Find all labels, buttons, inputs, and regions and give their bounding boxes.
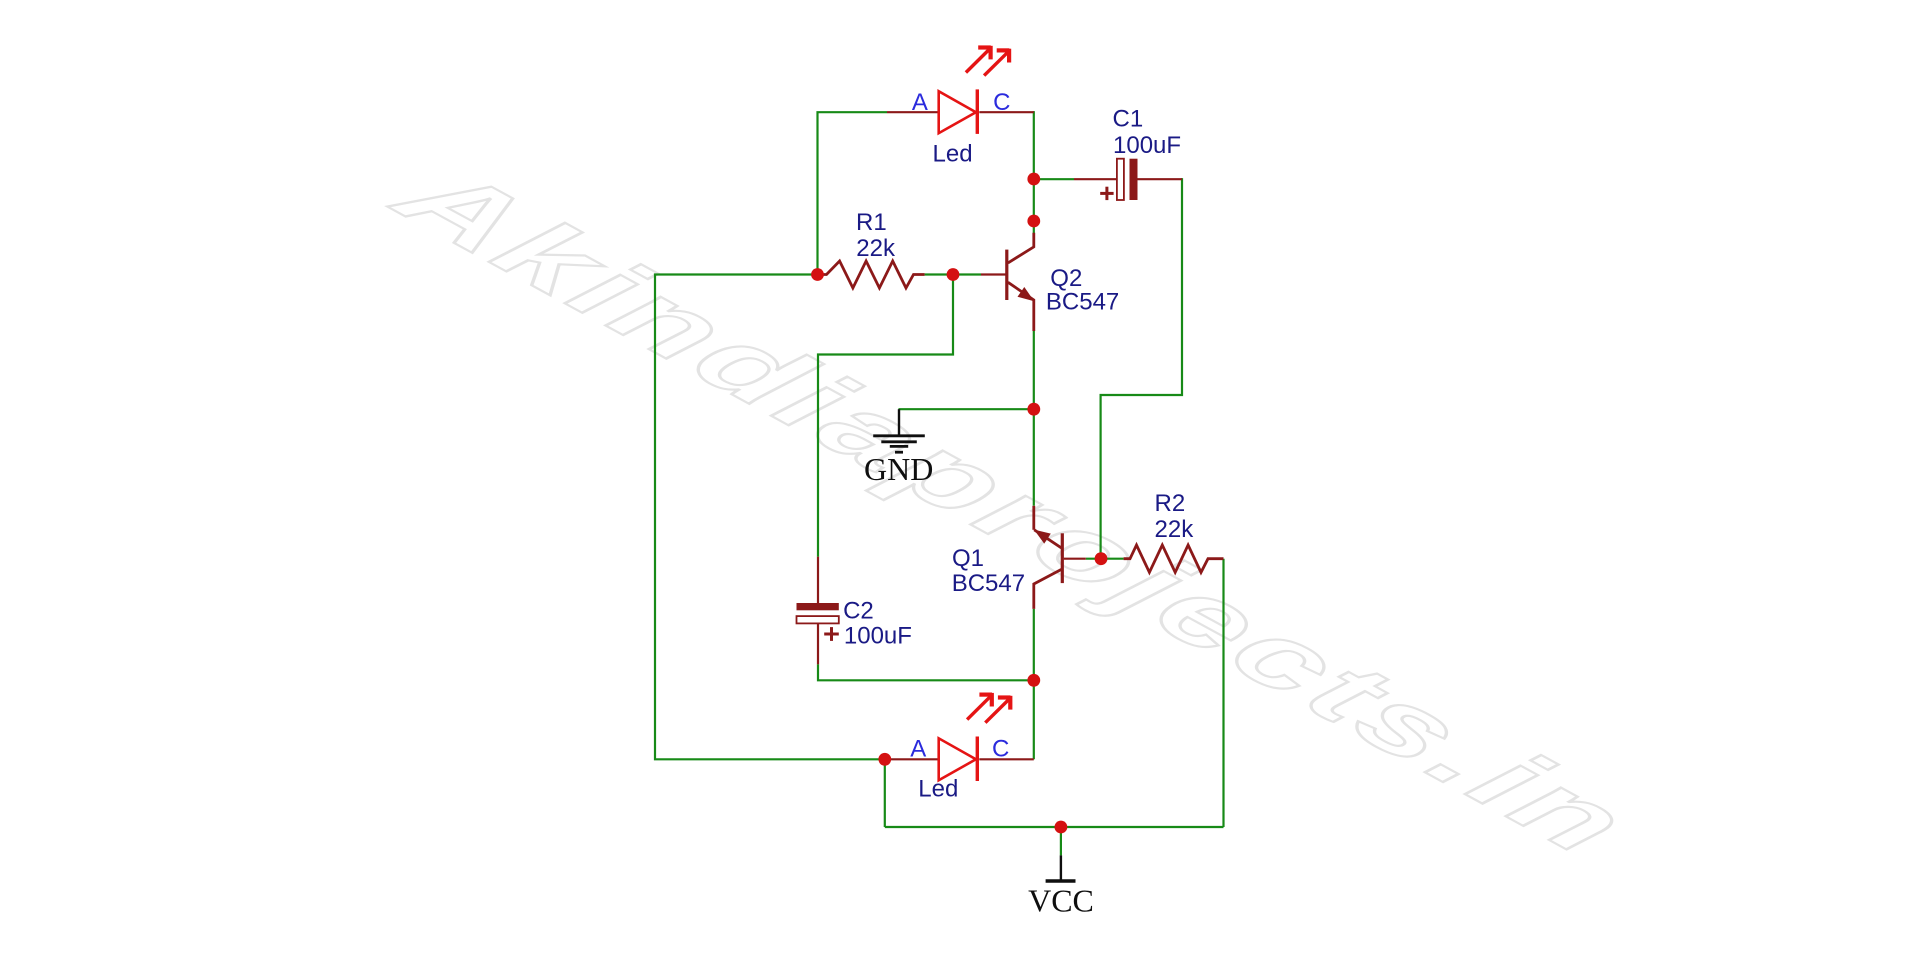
junction node Q1 collector / C2 / LED2 cathode [1027,674,1040,687]
wire R2 right down to VCC rail [1222,559,1224,827]
svg-text:C: C [992,736,1009,763]
svg-text:C1: C1 [1113,106,1144,133]
capacitor C2 top lead [817,557,819,603]
LED2 cathode bar [976,737,979,782]
VCC symbol [1046,855,1076,881]
capacitor C1 plus sign [1100,187,1113,200]
LED2 arrow 1 [967,693,992,720]
LED2 arrow 2 [985,696,1010,723]
junction node Q1 base / R2 / C1 [1095,552,1108,565]
wire GND node down to Q1 emitter pin [1033,409,1035,506]
wire VCC stub [1060,827,1062,855]
junction node R1 right / Q2 base [947,268,960,281]
wire spine dot to Q2 collector pin [1033,221,1035,233]
svg-text:VCC: VCC [1028,883,1094,919]
svg-text:BC547: BC547 [952,570,1025,597]
LED1 (top Led) anode pin [887,111,939,113]
capacitor C2 top plate (solid) [797,603,839,610]
transistor Q1 emitter pin [1032,506,1035,530]
svg-text:100uF: 100uF [1113,132,1181,159]
wire Q1 base to R2 [1086,558,1124,560]
svg-text:A: A [910,736,926,763]
svg-text:Q1: Q1 [952,545,984,572]
capacitor C1 right plate (solid) [1130,159,1138,200]
transistor Q1 base pin [1064,558,1086,560]
wire bottom LED anode node down to rail [884,759,886,827]
wire R1 node down and across to C2 top [818,275,953,557]
LED2 (bottom Led) anode pin [885,758,939,760]
svg-text:C: C [993,89,1010,116]
LED1 cathode bar [976,89,979,133]
svg-text:BC547: BC547 [1046,289,1119,316]
svg-text:Led: Led [918,776,958,803]
junction node LED2 anode [878,753,891,766]
transistor Q1 base bar [1061,533,1064,583]
LED1 arrow 1 [966,46,991,73]
LED1 cathode pin [979,111,1034,113]
transistor Q1 collector [1034,569,1062,609]
transistor Q2 base bar [1005,250,1008,300]
wire bottom LED cathode up to C2 bottom node [1033,680,1035,759]
svg-text:R1: R1 [856,209,887,236]
junction node Q2 collector [1027,215,1040,228]
junction node R1 left [811,268,824,281]
capacitor C2 bottom plate (hollow) [797,616,839,623]
transistor Q2 emitter arrow [1018,287,1035,301]
junction node VCC rail [1055,821,1068,834]
wire GND stub horizontal [899,408,1034,410]
capacitor C1 right lead [1138,178,1183,180]
ground symbol [873,409,925,452]
svg-text:GND: GND [864,451,933,487]
wire net VCC left rail: top LED anode to R1 node down left side to bottom LED anode [818,112,888,274]
wire spine dot to dot [1033,179,1035,221]
LED1 arrow 2 [984,49,1009,76]
svg-text:A: A [912,89,928,116]
svg-text:R2: R2 [1155,490,1186,517]
svg-text:C2: C2 [843,597,874,624]
wire R1 right to Q2 base [925,273,981,275]
junction node GND / emitters [1027,403,1040,416]
wire top LED cathode corner down to C1 node [1033,111,1035,179]
wire bottom VCC rail [885,826,1224,828]
LED2 triangle [939,738,976,780]
capacitor C2 plus sign [824,627,839,641]
transistor Q2 emitter [1008,282,1034,331]
transistor Q1 emitter [1034,530,1061,548]
svg-text:22k: 22k [1155,516,1195,543]
resistor R1 [818,261,925,288]
wire C1 node to C1 left lead [1034,178,1074,180]
capacitor C2 bottom lead [817,623,819,664]
wire Q2 emitter down to GND node [1033,331,1035,409]
wire C2 bottom across to Q1 collector node [818,664,1034,680]
capacitor C1 left lead [1074,178,1117,180]
wire C1 right to Q1 base node [1101,178,1182,559]
resistor R2 [1124,545,1224,572]
svg-text:Led: Led [933,141,973,168]
transistor Q1 emitter arrow [1034,530,1051,544]
transistor Q2 collector [1008,233,1034,263]
capacitor C1 left plate (hollow) [1117,159,1124,200]
LED2 cathode pin [979,758,1034,760]
transistor Q2 base pin [981,273,1006,275]
junction node C1 / LED1 cathode [1027,173,1040,186]
wire Q1 collector down to bottom node [1033,609,1035,680]
svg-text:100uF: 100uF [844,622,912,649]
wire left rail [655,275,885,760]
svg-text:22k: 22k [856,235,896,262]
LED1 triangle [939,91,976,133]
